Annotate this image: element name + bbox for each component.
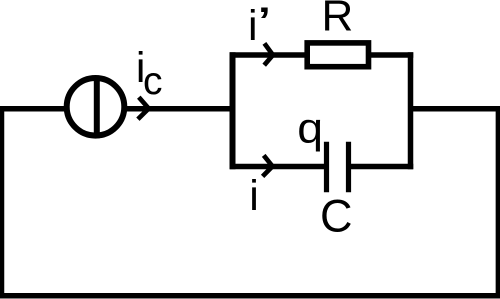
- wire: current source to parallel network left node: [125, 106, 236, 112]
- label i: [249, 172, 259, 220]
- wire: top branch left segment to resistor: [230, 52, 306, 58]
- resistor R: [307, 43, 368, 67]
- capacitor C: [327, 142, 349, 192]
- svg-text:c: c: [143, 60, 163, 103]
- wire: left horizontal from edge to current source: [0, 106, 67, 112]
- svg-text:q: q: [297, 104, 323, 152]
- arrow: current i direction chevron: [263, 155, 273, 176]
- wire: parallel network right vertical: [408, 52, 414, 169]
- wire: bottom branch right segment from capacitor: [350, 164, 413, 170]
- wire: top branch right segment from resistor: [370, 52, 413, 58]
- label C: [320, 191, 353, 242]
- label R: [322, 0, 354, 41]
- wire: parallel network left vertical: [230, 52, 236, 169]
- svg-text:i: i: [249, 172, 259, 220]
- svg-text:R: R: [322, 0, 354, 41]
- label i': [248, 0, 272, 51]
- arrow: current i' direction chevron: [264, 43, 273, 65]
- label q: [297, 104, 323, 152]
- wire: bottom branch left segment to capacitor: [230, 164, 325, 170]
- svg-text:’: ’: [257, 0, 272, 51]
- label i_c: [136, 44, 163, 103]
- arrow: current i_c direction chevron: [138, 97, 149, 119]
- svg-text:C: C: [320, 191, 353, 242]
- wire: outer loop (right horizontal, right vertical, bottom, left vertical): [2, 109, 499, 296]
- current source (circle with vertical bar): [67, 76, 125, 139]
